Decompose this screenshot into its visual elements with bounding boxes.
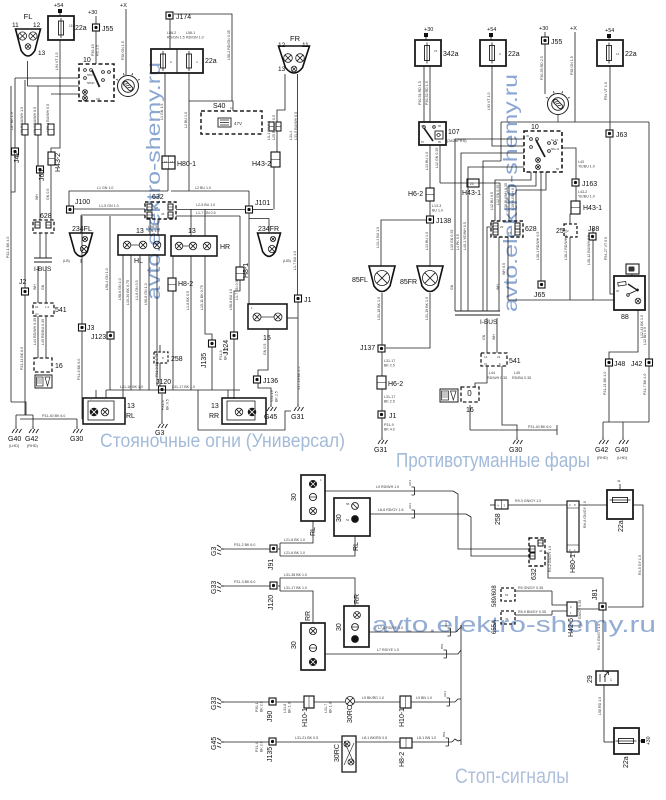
svg-text:C1: C1: [35, 312, 39, 316]
wire switch to IBUS a: [455, 139, 524, 311]
svg-text:L8-1 BK/RD 0.5: L8-1 BK/RD 0.5: [362, 736, 387, 740]
module frame left edge: [500, 122, 502, 161]
svg-text:R4-5 GY 1.0: R4-5 GY 1.0: [638, 555, 642, 575]
svg-text:15: 15: [69, 24, 73, 28]
wire J63 to relay 88: [610, 137, 614, 294]
relay 107 lever: [424, 128, 433, 141]
svg-text:R4-3 GN/GY 1.0: R4-3 GN/GY 1.0: [597, 624, 601, 650]
switch lever: [92, 70, 100, 87]
wire down to J3: [81, 216, 83, 324]
svg-text:BK 1.0: BK 1.0: [329, 702, 333, 713]
connector J81: [599, 603, 606, 610]
wire L1 GN to J100: [69, 191, 168, 206]
svg-text:P31-3 BK 6.0: P31-3 BK 6.0: [234, 580, 255, 584]
svg-text:YE/BU 1.0: YE/BU 1.0: [578, 165, 595, 169]
wire switch 10 to J65: [540, 172, 542, 281]
branch at J91: [279, 543, 281, 556]
connector J90: [269, 698, 276, 705]
wire H43-1 to 25: [570, 214, 576, 224]
svg-text:L7-6 RD/YE 1.0: L7-6 RD/YE 1.0: [378, 626, 403, 630]
fog lamp unit RR rear: [344, 606, 369, 647]
wire J138 to 85FL: [381, 220, 426, 266]
connector H8-2 stop: [400, 738, 412, 748]
connector J65 left: [37, 166, 44, 173]
svg-text:G40: G40: [615, 447, 628, 454]
svg-text:L39 BU/WH 0.5: L39 BU/WH 0.5: [511, 185, 515, 210]
svg-text:L9 RD/WH 1.0: L9 RD/WH 1.0: [376, 485, 399, 489]
svg-text:12: 12: [278, 42, 286, 49]
wire G33 to J120: [224, 585, 270, 587]
switch 29: [596, 671, 618, 685]
svg-text:15: 15: [263, 335, 271, 342]
svg-text:BK 2.5: BK 2.5: [384, 400, 395, 404]
module 258 left dashed: [154, 352, 168, 363]
wire 258 to J120: [159, 363, 161, 386]
wire HL down b: [130, 255, 132, 390]
switch contact lamp a: [83, 90, 88, 95]
svg-text:J138: J138: [436, 218, 451, 225]
branch at J120: [279, 578, 281, 591]
svg-text:107: 107: [448, 129, 460, 136]
svg-text:58a,11: 58a,11: [551, 147, 560, 151]
svg-text:BK 4.0: BK 4.0: [384, 428, 395, 432]
svg-text:G33: G33: [211, 697, 218, 710]
wire switch to IBUS c: [468, 167, 524, 311]
jog L7: [452, 650, 461, 654]
wire J163 to H43-1 right: [575, 186, 577, 201]
wire J120 to RR front: [280, 591, 313, 623]
svg-text:HR: HR: [220, 244, 230, 251]
svg-text:16: 16: [55, 363, 63, 370]
ground G30 left: [73, 426, 83, 433]
connector J91: [270, 545, 277, 552]
wire J135 to 30RC box: [276, 741, 342, 743]
svg-text:J1: J1: [389, 413, 397, 420]
svg-text:L93 VT 1.0: L93 VT 1.0: [487, 92, 491, 110]
svg-text:L45: L45: [514, 371, 520, 375]
svg-text:30: 30: [526, 134, 530, 138]
svg-text:P32-1 BK 4.0: P32-1 BK 4.0: [6, 237, 10, 258]
svg-text:15: 15: [434, 49, 438, 53]
svg-text:HL: HL: [134, 258, 143, 265]
svg-text:J42: J42: [631, 361, 642, 368]
svg-text:L31-8: L31-8: [283, 704, 287, 713]
jog row1: [455, 699, 461, 702]
svg-text:I-BUS: I-BUS: [480, 319, 498, 326]
inline connector HD3 a: [412, 487, 415, 495]
svg-text:13: 13: [136, 228, 144, 235]
svg-text:L31-17 BK 1.0: L31-17 BK 1.0: [172, 385, 195, 389]
wire into 22a bottom: [604, 741, 614, 743]
svg-text:H10-1: H10-1: [302, 708, 309, 727]
module frame right edge: [648, 122, 650, 359]
svg-text:G30: G30: [70, 436, 83, 443]
svg-text:13: 13: [188, 228, 196, 235]
svg-text:J65: J65: [534, 292, 545, 299]
wire 85FL to J137: [381, 293, 383, 345]
svg-text:GN: GN: [482, 334, 486, 340]
svg-text:L94 VT 1.5: L94 VT 1.5: [55, 52, 59, 70]
wire L94 down to H43-2: [51, 40, 60, 152]
svg-text:J90: J90: [267, 711, 274, 722]
wire +30 to J55: [95, 16, 97, 24]
wire ground loop RR: [198, 390, 291, 430]
wire to 632 fog b: [466, 514, 530, 556]
svg-text:FL: FL: [24, 12, 33, 21]
svg-text:R4-2 GN/GY 1.0: R4-2 GN/GY 1.0: [548, 546, 552, 572]
svg-text:L43: L43: [578, 160, 584, 164]
connector J42: [12, 148, 19, 155]
wire +54 to relay: [59, 13, 61, 16]
inline connector HD3 b: [412, 510, 415, 518]
fog lamp unit RL rear: [334, 498, 370, 536]
svg-text:87: 87: [421, 140, 425, 144]
svg-text:L10 GN 0.35: L10 GN 0.35: [450, 230, 454, 250]
lamp cluster HR: [171, 236, 217, 256]
ground G45 stop: [217, 738, 224, 748]
svg-text:L40-1 YE/WH 0.5: L40-1 YE/WH 0.5: [463, 222, 467, 250]
svg-text:P31-2 BK 6.0: P31-2 BK 6.0: [234, 543, 255, 547]
svg-text:L1-8 BK 0.5: L1-8 BK 0.5: [186, 291, 190, 310]
svg-text:J135: J135: [267, 747, 274, 762]
wire 632 to J101 row: [176, 209, 273, 211]
switch 10 right dashed box: [524, 131, 562, 172]
svg-text:H43-1: H43-1: [462, 190, 481, 197]
svg-text:52: 52: [505, 593, 509, 597]
wire H43-2 right down: [273, 167, 275, 210]
wire J48 down: [608, 366, 610, 422]
module 16 left dashed: [34, 358, 52, 372]
ground G42 right: [599, 437, 609, 444]
wire to H43-1: [440, 182, 467, 184]
svg-text:RD/WH 0.35: RD/WH 0.35: [487, 376, 507, 380]
module 632 dashed: [145, 202, 176, 219]
relay 107: [419, 122, 446, 145]
vertical collector wire: [460, 625, 462, 745]
svg-text:S40: S40: [213, 103, 226, 110]
stem G42 right: [602, 422, 604, 437]
wire 15 to J1 column: [287, 317, 298, 319]
svg-text:258: 258: [171, 356, 183, 363]
svg-text:BU 1.0: BU 1.0: [432, 209, 443, 213]
switch 10 left dashed box: [79, 64, 114, 101]
svg-text:47V: 47V: [234, 121, 242, 126]
lamp RL outer: [83, 398, 125, 424]
svg-text:22a: 22a: [508, 51, 520, 58]
svg-text:J3: J3: [87, 325, 95, 332]
relay 88 lever: [628, 284, 637, 290]
svg-text:P30-51 RD 1.5: P30-51 RD 1.5: [418, 81, 422, 105]
svg-text:+30: +30: [424, 27, 433, 33]
svg-text:48: 48: [539, 549, 543, 553]
svg-text:24: 24: [497, 355, 501, 359]
wire L1-7 bus: [176, 215, 240, 217]
connector H80-1 fog: [567, 501, 579, 552]
connector J101: [246, 206, 253, 213]
svg-text:P31-11 BK 6.0: P31-11 BK 6.0: [20, 347, 24, 370]
svg-text:GN: GN: [41, 284, 45, 290]
module S40 dashed: [201, 111, 262, 134]
svg-text:L1-7 GN 0.5: L1-7 GN 0.5: [235, 280, 239, 300]
svg-text:L2-5 BU 1.0: L2-5 BU 1.0: [196, 203, 215, 207]
switch contact lamp b: [83, 96, 88, 101]
svg-text:HD3: HD3: [408, 480, 412, 486]
svg-text:P31-21 BK 4.0: P31-21 BK 4.0: [603, 372, 607, 395]
svg-text:+54: +54: [54, 3, 63, 9]
module 25 dashed: [564, 224, 577, 237]
stem G30 right: [516, 430, 518, 437]
wire L1 to H80-1: [164, 73, 166, 156]
lamp cluster HL: [118, 235, 165, 255]
switch lever right: [536, 140, 545, 157]
wire switch to J163: [562, 148, 576, 179]
svg-text:L98-8 BU 1.0: L98-8 BU 1.0: [229, 289, 233, 310]
wire down x15: [14, 78, 16, 148]
inline connector HD3 c: [448, 628, 451, 636]
svg-text:45: 45: [155, 206, 159, 210]
svg-text:L9 BN 1.0: L9 BN 1.0: [416, 696, 432, 700]
svg-text:BK 0.5: BK 0.5: [166, 399, 170, 410]
svg-text:25: 25: [556, 228, 564, 235]
svg-text:J137: J137: [360, 345, 375, 352]
connector J1 left: [295, 295, 302, 302]
svg-text:L12 GN 0.35: L12 GN 0.35: [496, 185, 500, 205]
wire to S40: [189, 100, 233, 102]
wire J3 to ground bus: [81, 331, 83, 419]
wire L2 BU down: [188, 73, 190, 191]
svg-text:L38 BU/WH 0.35: L38 BU/WH 0.35: [504, 183, 508, 210]
svg-text:L31-21 BK 0.5: L31-21 BK 0.5: [295, 736, 318, 740]
I-BUS bracket right: [455, 310, 500, 312]
svg-text:10: 10: [531, 124, 539, 131]
connector J55 left: [93, 24, 100, 31]
wire IBUS to 541 right b: [496, 318, 498, 353]
svg-text:L13-4 BU 1.0: L13-4 BU 1.0: [376, 227, 380, 248]
svg-text:GN 0.5: GN 0.5: [263, 344, 267, 355]
wire J81 to 29: [602, 610, 604, 671]
svg-text:13: 13: [38, 50, 46, 57]
wire 22a mid to switch 10: [492, 66, 524, 146]
wire J120 to G3: [161, 394, 163, 421]
wire 342a to 107 b: [429, 66, 431, 122]
stem G40: [15, 415, 17, 426]
svg-text:L31-18 BK 1.0: L31-18 BK 1.0: [377, 297, 381, 320]
ground G40: [12, 426, 22, 433]
svg-text:L43-2: L43-2: [578, 190, 587, 194]
svg-text:15: 15: [508, 231, 512, 235]
connector H8-1: [236, 267, 244, 280]
svg-text:P31-6 BK 6.0: P31-6 BK 6.0: [77, 359, 81, 380]
svg-text:G40: G40: [8, 436, 21, 443]
svg-text:BK 0.75: BK 0.75: [224, 347, 228, 360]
wire J90 to H10-1: [276, 701, 304, 703]
svg-text:BK 2.5: BK 2.5: [384, 364, 395, 368]
connector H43-1 right: [571, 201, 580, 214]
svg-text:J120: J120: [268, 595, 275, 610]
svg-text:49: 49: [617, 479, 621, 483]
svg-text:13: 13: [127, 403, 135, 410]
relay 22a fog: [607, 490, 633, 519]
connector J136: [254, 376, 261, 383]
svg-text:L87 BK 1.9: L87 BK 1.9: [10, 112, 14, 130]
svg-text:L1-7 GN 0.5: L1-7 GN 0.5: [196, 211, 216, 215]
wire ground bus right: [603, 421, 649, 423]
svg-text:RH-8 GN/GY 1.0: RH-8 GN/GY 1.0: [583, 501, 587, 528]
wire P31-40 left: [20, 418, 77, 420]
connector H10-1 left: [304, 696, 314, 708]
svg-text:258: 258: [495, 513, 502, 525]
ground G3 left: [158, 421, 168, 428]
svg-text:G3: G3: [211, 547, 218, 556]
svg-text:L98-6 GN 1.0: L98-6 GN 1.0: [118, 278, 122, 300]
svg-text:L45 RD/BU 0.35: L45 RD/BU 0.35: [41, 319, 45, 345]
lamp unit 15: [248, 304, 287, 329]
wire G33 to J90: [224, 701, 269, 703]
svg-text:30: 30: [336, 623, 343, 631]
svg-text:P31-40 BK 6.0: P31-40 BK 6.0: [42, 414, 65, 418]
svg-text:342a: 342a: [443, 51, 459, 58]
svg-text:WH 0.5: WH 0.5: [502, 263, 506, 275]
jog row2: [452, 739, 461, 742]
wire 541 to 16 right: [475, 366, 487, 387]
ground G3 fog: [217, 545, 224, 555]
wire J136 to G45: [258, 383, 271, 404]
svg-text:J101: J101: [255, 200, 270, 207]
lamp FR: [279, 46, 310, 73]
wire 628 to I-BUS: [39, 233, 41, 258]
inline connector B53 a: [444, 650, 447, 658]
svg-text:RD 2.5: RD 2.5: [96, 45, 100, 56]
wire HR down a: [190, 256, 192, 390]
svg-text:RL: RL: [353, 542, 360, 551]
wire 632 to HL b: [157, 219, 159, 235]
connector H43-2 right: [271, 152, 280, 167]
svg-text:(LIB): (LIB): [283, 259, 291, 263]
module 541 left dashed: [33, 303, 54, 316]
svg-text:G42: G42: [25, 436, 38, 443]
svg-text:P30-1: P30-1: [255, 702, 259, 712]
svg-text:L58-2 RD/GN 0.35: L58-2 RD/GN 0.35: [227, 30, 231, 60]
wire bus to HR b: [204, 209, 206, 236]
wire J123 down: [109, 339, 111, 390]
svg-text:21: 21: [484, 362, 488, 366]
svg-text:L2 BU 1.0: L2 BU 1.0: [195, 186, 211, 190]
svg-text:11: 11: [302, 42, 309, 49]
svg-text:(RHD): (RHD): [597, 456, 608, 460]
wire J124 to RR: [233, 339, 235, 399]
icon above 88: [626, 264, 639, 274]
ground G45 left: [267, 404, 277, 411]
svg-text:85FL: 85FL: [352, 277, 368, 284]
svg-text:V37-19 BK 2.5: V37-19 BK 2.5: [297, 367, 301, 390]
connector H43-1 mid: [467, 179, 479, 187]
wire row J120: [106, 389, 240, 391]
svg-text:58: 58: [556, 167, 560, 171]
lamp FL: [16, 29, 41, 56]
svg-text:B53: B53: [442, 731, 446, 737]
relay 22a mid: [480, 40, 506, 66]
svg-text:L31-19 BK 1.0: L31-19 BK 1.0: [425, 297, 429, 320]
svg-text:H42-5: H42-5: [568, 618, 575, 637]
svg-text:J2: J2: [19, 279, 27, 286]
svg-text:16: 16: [170, 160, 174, 164]
wire below H80-1: [167, 169, 169, 191]
svg-text:RR: RR: [354, 594, 361, 604]
wire FL to switch: [28, 85, 80, 87]
wire J137 to H6-2 lower: [381, 352, 383, 376]
svg-text:WH: WH: [496, 284, 500, 290]
svg-text:L38-2 RD/WH 0.75: L38-2 RD/WH 0.75: [564, 230, 568, 260]
wire J138 to 85FR: [429, 224, 431, 266]
svg-text:22a: 22a: [625, 51, 637, 58]
contact lamp d: [536, 165, 541, 170]
svg-text:J123: J123: [91, 334, 106, 341]
svg-text:P54 VT 1.0: P54 VT 1.0: [604, 82, 608, 100]
svg-text:P31-4: P31-4: [255, 742, 259, 752]
svg-text:L4 PK 0.5: L4 PK 0.5: [456, 234, 460, 250]
wire J100 to 632: [73, 208, 145, 210]
svg-text:WH: WH: [492, 334, 496, 340]
svg-text:+54: +54: [605, 28, 614, 34]
wire L7 RD/YE: [325, 653, 452, 655]
svg-text:85FR: 85FR: [400, 279, 417, 286]
svg-text:29: 29: [500, 225, 504, 229]
svg-text:22a: 22a: [205, 58, 217, 65]
wire 30RC to H10-1 b: [355, 701, 401, 703]
wire 628 left pin to IBUS: [487, 227, 493, 311]
svg-text:BK 1.0: BK 1.0: [288, 702, 292, 713]
ground G30 right: [513, 437, 523, 444]
svg-text:85: 85: [438, 140, 442, 144]
long wire P32-1 left: [10, 86, 12, 402]
stem G40 right: [622, 422, 624, 437]
svg-text:54: 54: [346, 518, 350, 522]
svg-text:RL: RL: [126, 413, 135, 420]
svg-text:J135: J135: [201, 353, 208, 368]
svg-text:13: 13: [616, 52, 620, 56]
wire J1 to G31: [297, 302, 299, 404]
wire L7-6 RD/YE: [369, 631, 456, 633]
svg-text:G30: G30: [509, 447, 522, 454]
wire HL down d: [148, 255, 150, 390]
svg-text:655A: 655A: [492, 620, 498, 634]
svg-text:30: 30: [291, 493, 298, 501]
svg-text:L31-38 BK 1.0: L31-38 BK 1.0: [284, 573, 307, 577]
svg-text:L10-30 BK 0.75: L10-30 BK 0.75: [126, 280, 130, 305]
svg-text:46: 46: [161, 212, 165, 216]
wire L9 RD/WH: [325, 490, 453, 492]
connector J135 left: [209, 340, 216, 347]
svg-text:(RHD): (RHD): [27, 444, 38, 448]
wire L8-1 BN: [412, 741, 452, 743]
connector J2: [22, 288, 29, 295]
relay 107 coil icon: [435, 131, 443, 139]
svg-text:BK 2.5: BK 2.5: [275, 391, 279, 402]
ground G33 fog: [217, 582, 224, 592]
svg-text:30: 30: [421, 124, 425, 128]
svg-text:58MD: 58MD: [87, 81, 94, 85]
svg-text:GN 1.0: GN 1.0: [148, 229, 159, 233]
wire HR to J135: [205, 256, 212, 340]
wire H43-2 down to 628: [50, 165, 52, 220]
svg-text:G33: G33: [211, 581, 218, 594]
svg-text:12: 12: [484, 355, 488, 359]
wire 107 to H6-2 right: [429, 145, 431, 188]
stem G42: [32, 415, 34, 426]
svg-text:GN 0.5: GN 0.5: [46, 189, 50, 200]
svg-text:RL: RL: [310, 527, 317, 536]
connector J120 left: [159, 386, 166, 393]
